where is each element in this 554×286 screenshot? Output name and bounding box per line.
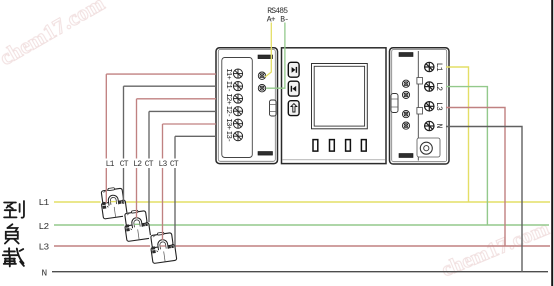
svg-text:CT: CT <box>145 160 154 169</box>
svg-text:I3-: I3- <box>224 131 232 142</box>
svg-text:L2: L2 <box>133 160 142 169</box>
svg-text:I2-: I2- <box>224 106 232 117</box>
svg-text:A+: A+ <box>267 16 276 25</box>
svg-text:CT: CT <box>120 160 129 169</box>
svg-text:B-: B- <box>280 16 288 25</box>
svg-text:L1: L1 <box>39 197 50 208</box>
svg-text:L1: L1 <box>434 63 443 72</box>
svg-text:I2+: I2+ <box>224 93 232 105</box>
svg-text:L3: L3 <box>39 242 50 253</box>
svg-text:I1+: I1+ <box>224 68 232 80</box>
svg-text:L2: L2 <box>434 82 443 91</box>
svg-text:I1-: I1- <box>224 81 232 92</box>
svg-text:L1: L1 <box>106 160 115 169</box>
svg-text:L3: L3 <box>159 160 168 169</box>
svg-text:I3+: I3+ <box>224 118 232 130</box>
svg-text:CT: CT <box>170 160 179 169</box>
svg-text:N: N <box>42 268 47 279</box>
svg-text:L3: L3 <box>434 102 443 111</box>
svg-text:L2: L2 <box>39 221 50 232</box>
